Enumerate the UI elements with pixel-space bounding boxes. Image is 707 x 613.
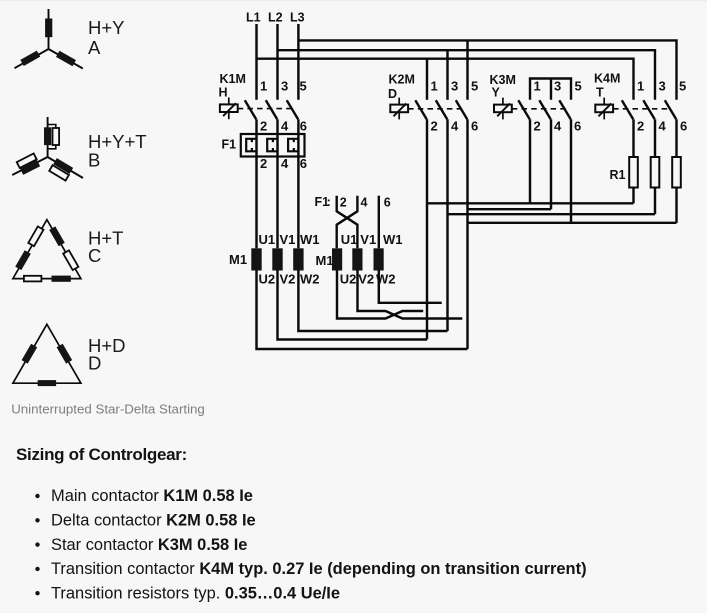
wire F1:2 stub crossover to V1b [337,196,358,249]
svg-text:1: 1 [534,79,541,94]
svg-text:W1: W1 [300,232,320,247]
star symbol A [15,9,83,69]
svg-text:A: A [88,37,101,58]
svg-text:L1: L1 [246,11,261,25]
svg-text:C: C [88,245,101,266]
svg-text:K4M: K4M [594,72,620,86]
svg-text:2: 2 [431,119,438,134]
wire U2a loop to K2M-6 column [257,271,468,350]
wire K4M-6 to R1 [675,119,677,157]
svg-text:Transition contactor K4M typ.: Transition contactor K4M typ. 0.27 Ie (d… [51,560,587,578]
wire F1-4 to M1a V1 [276,157,278,249]
svg-text:W2: W2 [300,272,320,287]
svg-text:U1: U1 [259,232,276,247]
wire V2b crossover to K2M-6 [358,271,463,319]
wire W2a loop to K2M-4 column [298,271,447,332]
svg-text:2: 2 [260,156,267,171]
wire F1-2 to M1a U1 [255,157,257,249]
triangle symbol D [13,324,81,386]
svg-text:U2: U2 [259,272,276,287]
svg-text:4: 4 [554,119,562,134]
svg-text:R1: R1 [610,168,626,182]
motor M1 winding group a [229,232,320,287]
svg-text:6: 6 [680,119,687,134]
contactor K3M [490,73,582,134]
resistor R1 bank [610,157,681,188]
wire K2M-6 column [466,119,468,349]
svg-text:H: H [219,86,228,100]
wire K4M-2 to R1 [632,119,634,157]
wire R1-2 drop [654,188,656,215]
svg-text:6: 6 [300,119,307,134]
wire row3 K2M-4 to R1-2 [448,213,656,215]
overload relay F1 [222,134,308,171]
svg-text:K1M: K1M [220,72,246,86]
svg-text:1: 1 [260,79,267,94]
contactor K1M [219,72,308,134]
contactor K4M [594,72,687,134]
wire K3M star bar [530,79,571,100]
wire K3M-6 drop [570,119,572,223]
svg-text:6: 6 [300,156,307,171]
svg-text:6: 6 [574,119,581,134]
wire K3M-4 drop [550,119,552,209]
wire F1-6 to M1a W1 [297,157,299,249]
svg-text:Delta contactor K2M 0.58 Ie: Delta contactor K2M 0.58 Ie [51,512,256,530]
wire V2a loop to K2M-2 column [278,271,428,340]
svg-text:Main contactor K1M 0.58 Ie: Main contactor K1M 0.58 Ie [51,487,253,505]
svg-text:3: 3 [451,79,458,94]
svg-text:Sizing of Controlgear:: Sizing of Controlgear: [16,445,187,464]
svg-text::: : [327,194,331,209]
wire bus L3 to K4M-5 [298,40,676,99]
node L1 [246,11,261,25]
contactor K2M [388,73,478,134]
label H+T C [88,228,123,267]
svg-text:L3: L3 [290,11,305,25]
wire R1-3 drop [675,188,677,223]
svg-text:3: 3 [659,79,666,94]
svg-text:6: 6 [471,119,478,134]
wire K2M-4 column [446,119,448,331]
svg-text:4: 4 [659,119,667,134]
svg-text:6: 6 [384,195,391,209]
wire R1-1 drop [632,188,634,204]
wire K1M-6 to F1 [297,119,299,134]
wire K1M-2 to F1 [255,119,257,134]
wire bus L1 to K4M-1 [257,59,634,100]
triangle symbol C [13,220,81,282]
node L3 [290,11,305,25]
wire K2M-1 tap [426,59,428,100]
svg-text:V2: V2 [280,272,296,287]
wire K2M-2 column [426,119,428,339]
svg-text:5: 5 [471,79,478,94]
svg-text:V1: V1 [360,232,376,247]
svg-text:D: D [388,87,397,101]
svg-text:T: T [596,86,604,100]
node F1:2 4 6 stub labels [315,194,391,210]
wire K1M-4 to F1 [276,119,278,134]
svg-text:2: 2 [260,119,267,134]
wire row1 K2M-2 to R1-1 [427,202,634,204]
svg-text:H+Y: H+Y [88,17,125,38]
svg-text:U2: U2 [340,272,357,287]
wire L1 vertical [255,24,257,100]
wire K2M-3 tap [446,50,448,100]
bullet list [35,487,586,602]
wire F1:4 stub crossover to U1b [337,196,358,249]
svg-text:M1: M1 [316,253,334,268]
svg-text:2: 2 [340,195,347,209]
svg-text:K2M: K2M [389,73,415,87]
wire U2b crossover to K2M-2 [337,271,423,319]
svg-text:U1: U1 [341,232,358,247]
wire W2b to K2M-4 [379,271,442,303]
svg-text:3: 3 [554,79,561,94]
wire K4M-4 to R1 [654,119,656,157]
svg-text:L2: L2 [268,11,283,25]
wire row2 K2M-6 to K3M-4 [468,208,552,210]
svg-text:1: 1 [431,79,438,94]
svg-text:Uninterrupted Star-Delta Start: Uninterrupted Star-Delta Starting [11,402,205,417]
label H+Y A [88,17,125,58]
svg-text:2: 2 [637,119,644,134]
wire bus L2 to K4M-3 [278,50,656,100]
svg-text:Star contactor K3M 0.58 Ie: Star contactor K3M 0.58 Ie [51,536,247,554]
svg-text:4: 4 [451,119,459,134]
node L2 [268,11,283,25]
label H+D D [88,335,126,374]
star symbol B with resistors [12,117,83,181]
svg-text:V1: V1 [280,232,296,247]
svg-text:2: 2 [534,119,541,134]
svg-text:1: 1 [637,79,644,94]
svg-text:B: B [88,150,100,171]
wire K3M-2 drop [529,119,531,203]
wire L2 vertical [276,24,278,100]
svg-text:F1: F1 [222,138,237,152]
svg-text:D: D [88,353,101,374]
svg-text:5: 5 [679,79,686,94]
svg-text:5: 5 [575,79,582,94]
svg-text:Transition resistors typ. 0.35: Transition resistors typ. 0.35…0.4 Ue/Ie [51,584,340,602]
svg-text:4: 4 [281,119,289,134]
svg-text:W1: W1 [383,232,403,247]
svg-text:M1: M1 [229,252,247,267]
svg-text:4: 4 [281,156,289,171]
label H+Y+T B [88,131,147,171]
svg-text:4: 4 [361,195,368,209]
wire row4 K2M-6 to R1-3 [468,222,677,224]
wire K2M-5 tap [466,40,468,99]
motor M1 winding group b [316,232,403,287]
svg-text:5: 5 [300,79,307,94]
svg-text:Y: Y [492,86,501,100]
wire L3 vertical [297,24,299,100]
svg-text:V2: V2 [358,272,374,287]
wire F1:6 stub to W1b [378,196,380,249]
svg-text:3: 3 [281,79,288,94]
